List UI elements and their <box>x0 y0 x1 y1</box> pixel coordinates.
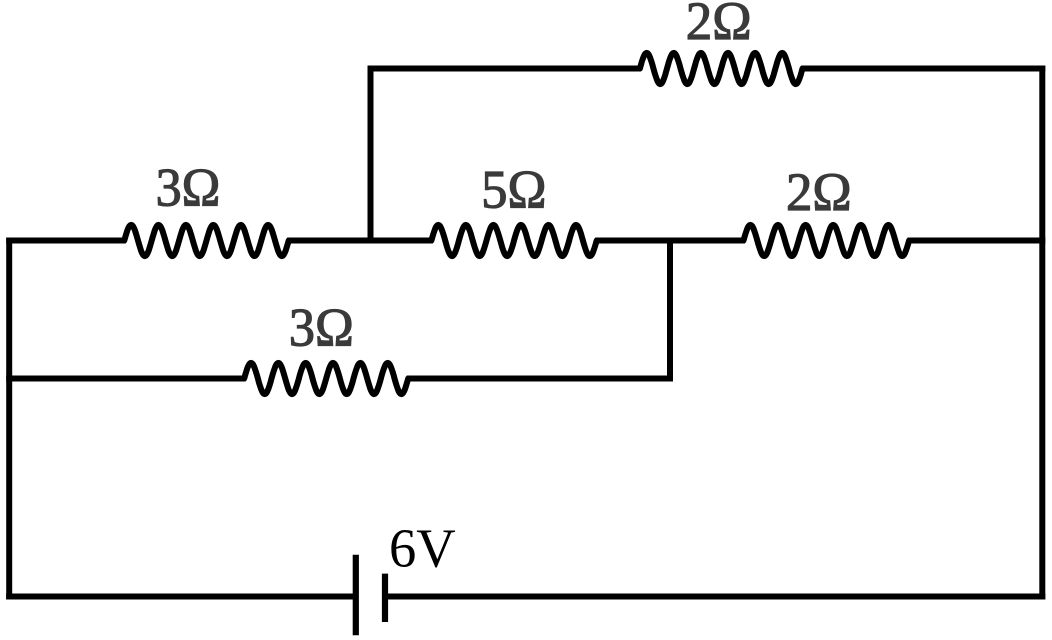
wire left vertical <box>6 238 12 600</box>
wire right vertical <box>1039 66 1045 600</box>
wire middle segment D <box>908 238 1046 244</box>
svg-text:3Ω: 3Ω <box>289 298 354 358</box>
resistor 3ohm middle <box>124 225 288 256</box>
svg-text:5Ω: 5Ω <box>481 159 546 219</box>
resistor 5ohm <box>431 225 596 256</box>
svg-text:2Ω: 2Ω <box>686 0 752 51</box>
wire middle segment C <box>595 238 745 244</box>
wire lower segment A <box>6 376 246 382</box>
resistor 2ohm right <box>744 225 910 256</box>
wire middle segment A <box>6 238 126 244</box>
wire top-right lead <box>801 66 1045 72</box>
resistor 3ohm lower <box>244 363 408 394</box>
svg-text:3Ω: 3Ω <box>156 157 221 217</box>
resistor 2ohm top <box>640 53 803 84</box>
svg-text:2Ω: 2Ω <box>786 162 852 222</box>
wire bottom left <box>6 594 353 600</box>
svg-text:6V: 6V <box>389 518 456 579</box>
battery V1 long plate <box>353 555 359 636</box>
battery V1 short plate <box>382 574 388 622</box>
wire lower segment B <box>407 376 673 382</box>
wire junction vertical <box>667 238 673 382</box>
wire bottom right <box>385 594 1045 600</box>
wire top-branch vertical <box>368 66 374 244</box>
wire top-left lead <box>368 66 642 72</box>
wire middle segment B <box>287 238 433 244</box>
